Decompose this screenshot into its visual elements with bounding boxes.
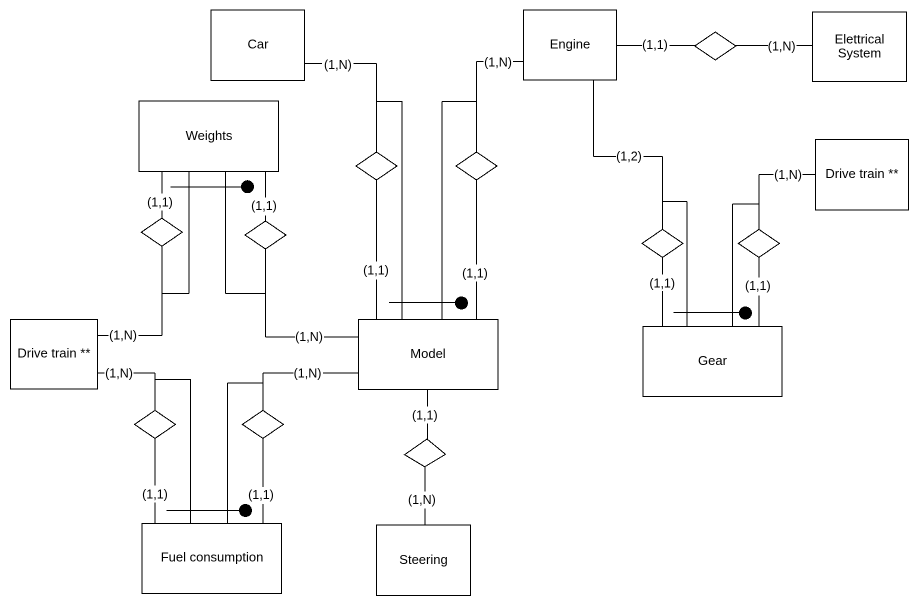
wire Weights to Model horizontal <box>266 336 359 338</box>
wire Car branch vertical <box>401 102 403 320</box>
svg-text:(1,1): (1,1) <box>649 277 675 291</box>
svg-text:Gear: Gear <box>698 353 728 368</box>
wire Model to Steering lower vertical <box>424 453 426 525</box>
wire Weights to Drive train left main vertical <box>161 172 163 336</box>
wire Weights to Model main vertical <box>265 172 267 338</box>
wire Drive train left to Fuel main vertical <box>154 373 156 523</box>
label (1,1) Weights left <box>145 194 175 211</box>
wire Engine to Model main vertical <box>476 62 478 320</box>
entity Elettrical System <box>813 12 907 82</box>
wire Fuel branch vertical right <box>226 383 228 523</box>
svg-text:(1,1): (1,1) <box>142 488 168 502</box>
entity Model <box>358 320 497 390</box>
wire Drive train left to Fuel horizontal <box>98 372 156 374</box>
svg-text:(1,N): (1,N) <box>105 367 133 381</box>
entity Drive train right <box>815 140 908 210</box>
relationship diamond DriveTrainRight-Gear <box>738 229 779 257</box>
entity Car <box>211 10 304 80</box>
identifier dot at Gear <box>739 307 752 320</box>
label (1,1) Gear left <box>647 275 677 292</box>
label (1,N) Elettrical <box>768 39 797 55</box>
label (1,1) Fuel left <box>140 486 170 503</box>
wire Model to Fuel main vertical <box>262 373 264 523</box>
label (1,N) Engine-Model <box>484 55 514 71</box>
wire Gear branch vertical right <box>732 204 734 327</box>
entity Gear <box>643 327 782 397</box>
svg-text:(1,2): (1,2) <box>616 150 642 164</box>
relationship diamond Engine-Gear <box>642 229 683 257</box>
wire Model to Steering upper vertical <box>427 390 429 454</box>
wire Car branch horizontal <box>377 101 403 103</box>
svg-text:Steering: Steering <box>399 552 447 567</box>
label (1,N) DriveTrainLeft lower <box>105 366 134 382</box>
relationship diamond Model-Steering <box>405 439 446 467</box>
entity Fuel consumption <box>142 523 282 593</box>
svg-text:(1,N): (1,N) <box>324 58 352 72</box>
relationship diamond Engine-Model <box>456 152 497 180</box>
svg-text:Engine: Engine <box>550 37 590 52</box>
identifier line at Weights <box>170 186 247 188</box>
label (1,1) Car-Model <box>361 262 391 280</box>
label (1,N) Model-Fuel <box>294 366 324 382</box>
wire Engine to Model horizontal <box>477 61 524 63</box>
wire Fuel branch vertical left <box>189 380 191 524</box>
label (1,1) Model-Steering <box>410 407 440 424</box>
svg-text:Elettrical: Elettrical <box>835 32 885 47</box>
identifier dot at Weights <box>241 180 254 193</box>
label (1,1) Engine-Model <box>460 265 490 282</box>
svg-text:Model: Model <box>410 346 446 361</box>
wire Engine branch vertical <box>441 102 443 320</box>
wire Weights right joint horizontal <box>226 293 266 295</box>
wire Fuel branch horizontal right <box>227 382 263 384</box>
wire Gear branch horizontal left <box>663 201 688 203</box>
relationship diamond DriveTrainLeft-Fuel <box>135 410 176 438</box>
svg-text:System: System <box>838 46 881 61</box>
svg-text:(1,N): (1,N) <box>408 493 436 507</box>
identifier line at Model <box>389 302 462 304</box>
svg-text:Weights: Weights <box>186 128 233 143</box>
identifier dot at Fuel consumption <box>239 504 252 517</box>
wire Fuel branch horizontal left <box>155 379 191 381</box>
svg-text:(1,1): (1,1) <box>642 38 668 52</box>
wire Engine branch horizontal <box>442 101 477 103</box>
svg-text:(1,N): (1,N) <box>484 56 512 70</box>
entity Engine <box>523 10 616 80</box>
svg-text:(1,1): (1,1) <box>363 264 389 278</box>
relationship diamond Model-Fuel <box>242 410 283 438</box>
relationship diamond Weights-DriveTrainLeft <box>141 218 182 246</box>
svg-text:(1,1): (1,1) <box>412 408 438 422</box>
label (1,2) Engine-Gear <box>616 149 644 165</box>
wire to Drive train left upper horizontal <box>98 335 162 337</box>
svg-text:(1,1): (1,1) <box>147 196 173 210</box>
wire Weights left second vertical <box>188 172 190 294</box>
relationship diamond Engine-Elettrical <box>695 32 736 60</box>
wire Car to Model horizontal <box>305 63 377 65</box>
wire Engine to Gear horizontal <box>593 156 662 158</box>
svg-text:Drive train **: Drive train ** <box>825 166 898 181</box>
wire Weights right second vertical <box>225 172 227 294</box>
wire Model to Fuel horizontal <box>263 372 359 374</box>
svg-text:(1,N): (1,N) <box>774 168 802 182</box>
label (1,N) DriveTrainRight-Gear <box>774 167 803 183</box>
svg-text:Fuel consumption: Fuel consumption <box>161 550 264 565</box>
label (1,N) DriveTrainLeft upper <box>109 328 139 344</box>
wire Drive train right to Gear main vertical <box>758 175 760 327</box>
svg-text:(1,1): (1,1) <box>462 266 488 280</box>
svg-text:(1,N): (1,N) <box>294 367 322 381</box>
entity Weights <box>139 101 279 172</box>
svg-text:(1,N): (1,N) <box>295 330 323 344</box>
relationship diamond Car-Model <box>356 152 397 180</box>
wire Engine to Gear main vertical <box>662 157 664 327</box>
svg-text:(1,1): (1,1) <box>251 199 277 213</box>
label (1,1) Weights right <box>249 198 279 216</box>
label (1,1) Gear right <box>743 278 773 296</box>
svg-text:Drive train **: Drive train ** <box>17 346 90 361</box>
label (1,N) Steering <box>407 492 437 509</box>
svg-text:(1,1): (1,1) <box>745 279 771 293</box>
wire Drive train right to Gear horizontal <box>759 174 815 176</box>
identifier line at Gear <box>674 312 746 314</box>
label (1,1) Engine-Elettrical <box>642 37 670 53</box>
svg-text:Car: Car <box>248 37 270 52</box>
wire Weights left joint horizontal <box>162 293 189 295</box>
wire Gear branch horizontal right <box>733 203 759 205</box>
label (1,N) Car-Model <box>322 57 354 73</box>
identifier line at Fuel consumption <box>167 510 246 512</box>
identifier dot at Model <box>455 297 468 310</box>
label (1,N) Weights-Model <box>295 329 324 345</box>
svg-text:(1,N): (1,N) <box>109 329 137 343</box>
svg-text:(1,N): (1,N) <box>768 40 796 54</box>
entity Steering <box>377 525 471 595</box>
wire Car to Model main vertical <box>376 64 378 320</box>
svg-text:(1,1): (1,1) <box>248 488 274 502</box>
relationship diamond Weights-Model <box>245 221 286 249</box>
entity Drive train left <box>10 319 97 389</box>
wire Gear branch vertical left <box>686 202 688 327</box>
wire Engine to Elettrical System <box>617 45 813 47</box>
wire Engine bottom vertical <box>592 80 594 157</box>
label (1,1) Fuel right <box>246 487 276 504</box>
